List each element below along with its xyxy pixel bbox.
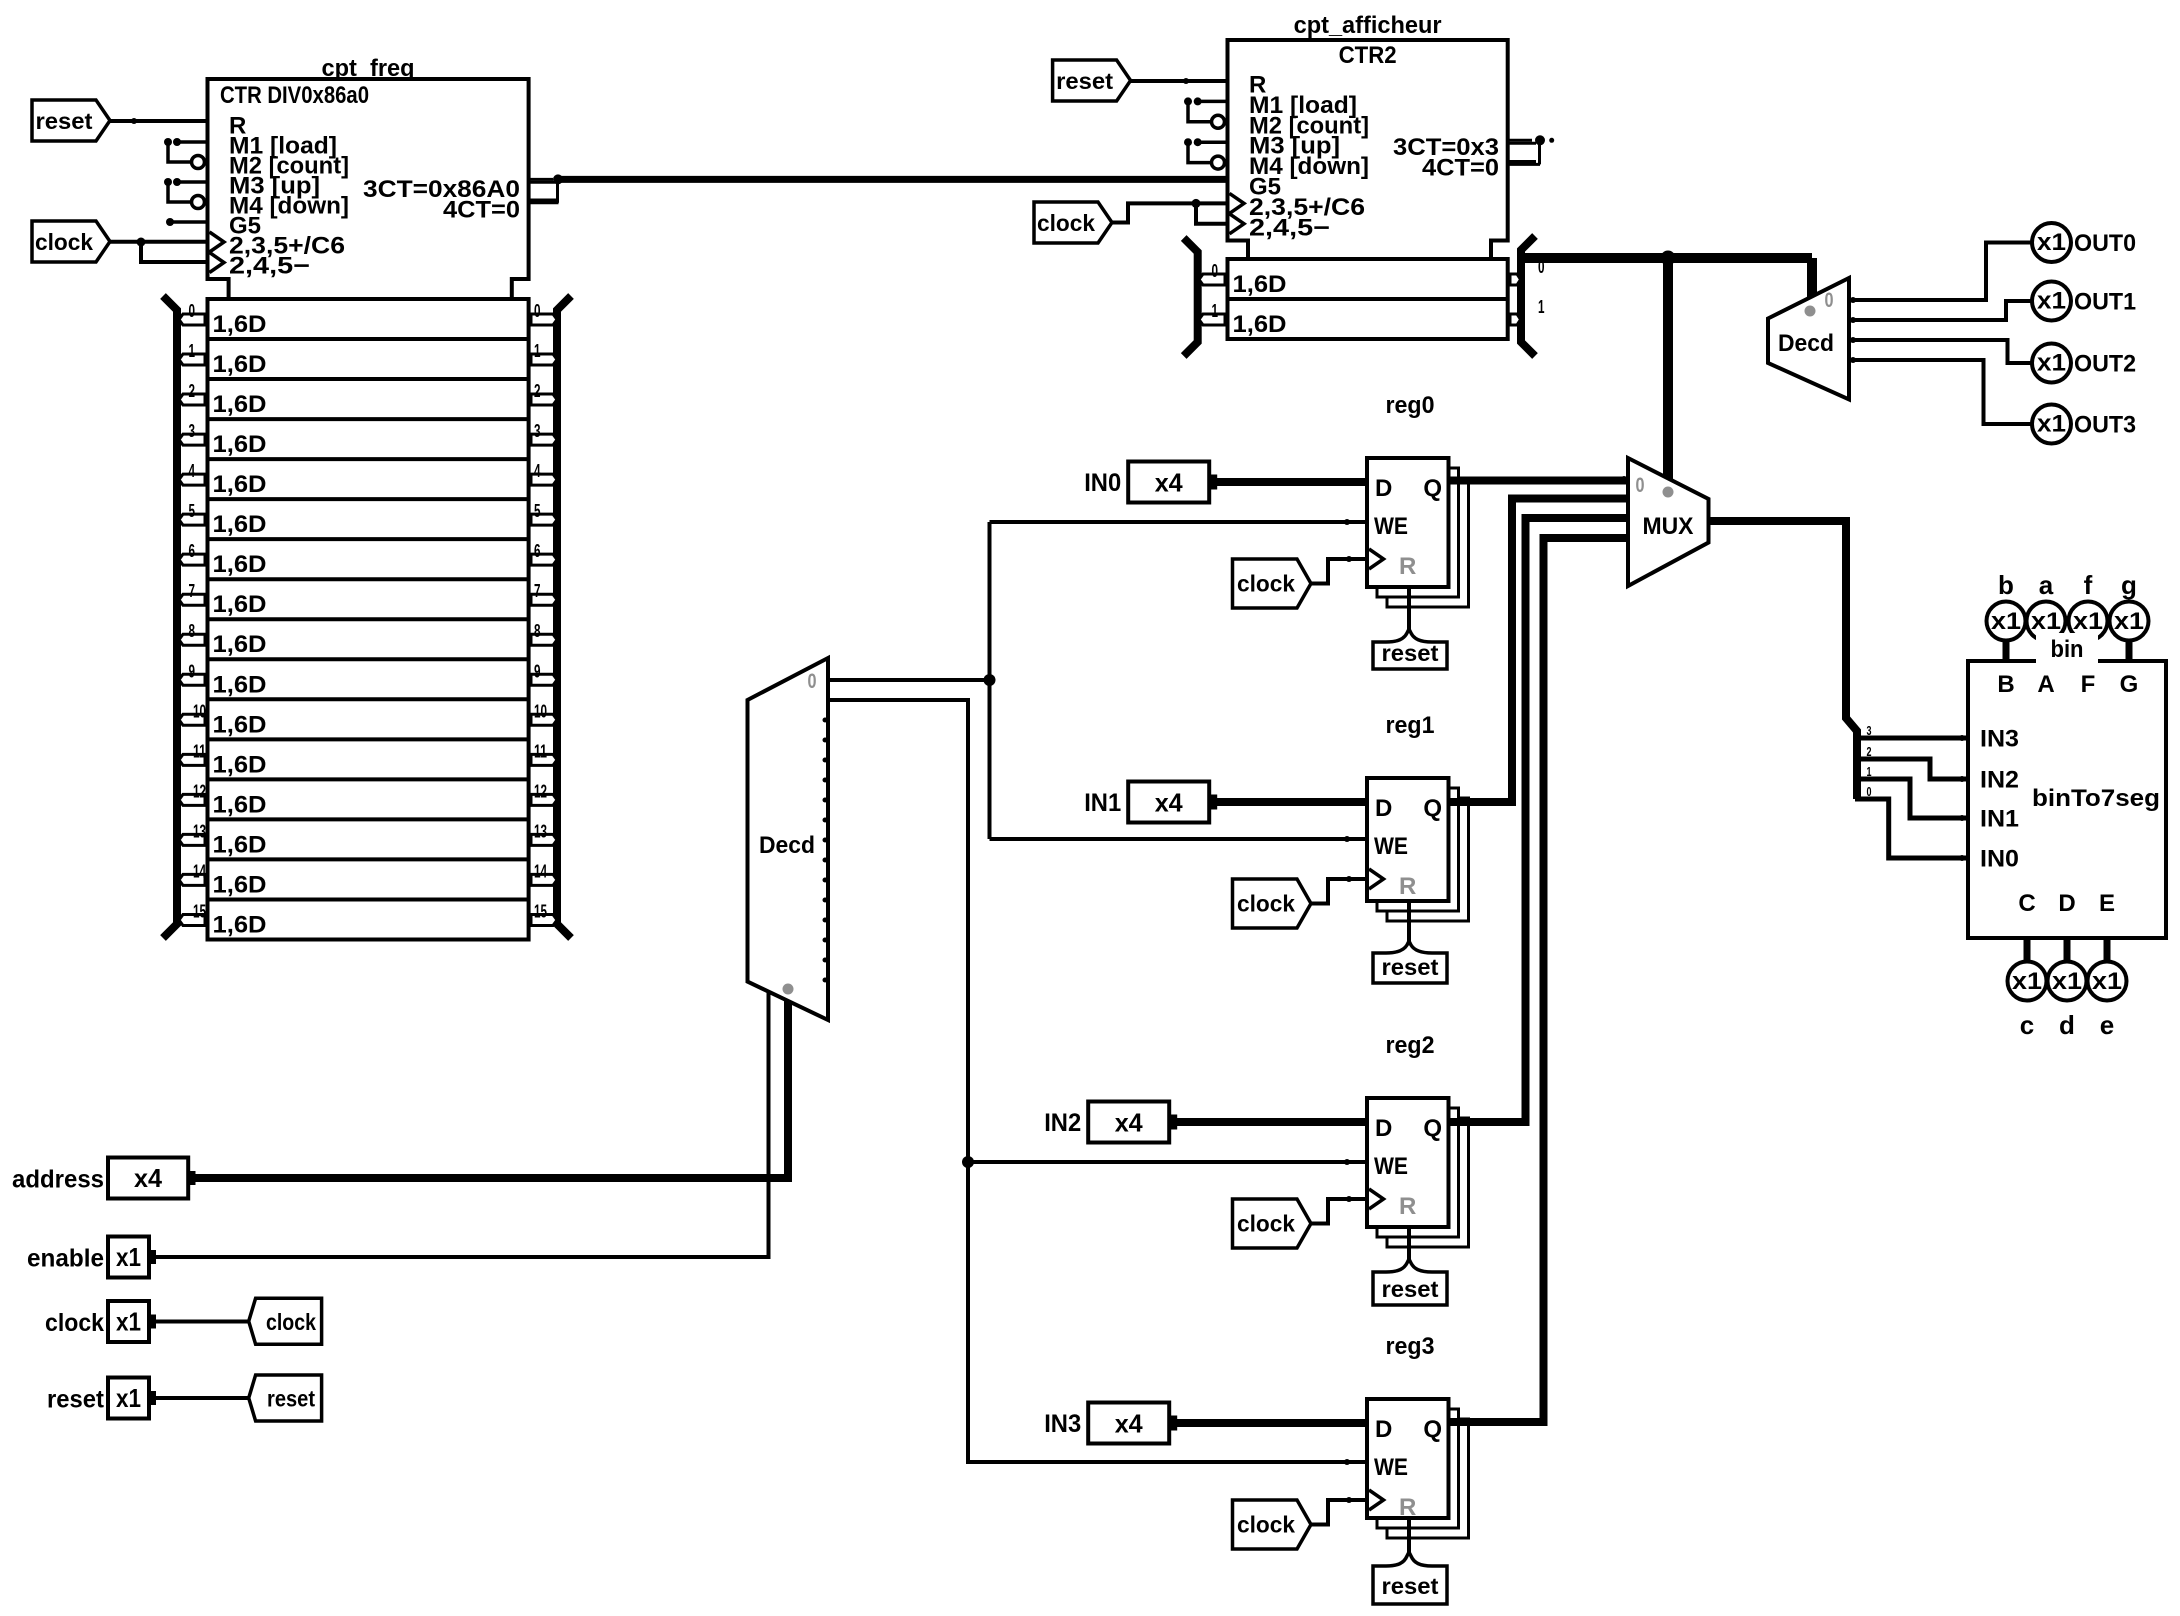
svg-text:B: B bbox=[1997, 671, 2014, 698]
svg-text:WE: WE bbox=[1374, 513, 1408, 540]
svg-text:Q: Q bbox=[1423, 1416, 1442, 1443]
svg-text:reg3: reg3 bbox=[1386, 1333, 1435, 1360]
register reg3 shadow flip-flops bbox=[1387, 1419, 1469, 1538]
bit stub left 8 (cpt_freq register) bbox=[179, 634, 205, 645]
reset tag sink with brace (reg3) bbox=[1373, 1552, 1447, 1604]
output stub 3CT (cpt_afficheur) bbox=[1508, 139, 1532, 142]
bit stub right 9 (cpt_freq register) bbox=[531, 674, 557, 685]
svg-text:8: 8 bbox=[189, 621, 196, 641]
wire MUX select vertical bbox=[1663, 258, 1673, 479]
input port enable x1 box bbox=[108, 1237, 149, 1278]
constant driver dot G5 (cpt_freq) bbox=[166, 218, 174, 226]
wire WE net for reg0/reg1 vertical bbox=[988, 522, 992, 839]
svg-text:x1: x1 bbox=[2031, 608, 2061, 635]
gray select dot of MUX bbox=[1663, 487, 1674, 498]
register reg1 shadow flip-flops bbox=[1387, 798, 1469, 921]
wire splitter bit1 to binTo7seg IN1 bbox=[1857, 779, 1968, 818]
svg-text:x1: x1 bbox=[116, 1383, 141, 1413]
wire WE input of reg0 bbox=[990, 520, 1368, 524]
bit stub left 4 (cpt_freq register) bbox=[179, 474, 205, 485]
svg-text:IN1: IN1 bbox=[1980, 806, 2019, 833]
row separator 4 (cpt_freq register) bbox=[208, 457, 529, 461]
svg-text:1,6D: 1,6D bbox=[213, 551, 267, 578]
wire Decd out0 to OUT0 bbox=[1849, 243, 2033, 301]
svg-text:1,6D: 1,6D bbox=[213, 511, 267, 538]
wire Decd out3 to OUT3 bbox=[1849, 360, 2033, 424]
input port box IN1 x4 bbox=[1128, 782, 1209, 823]
wire net cpt_afficheur count bus to MUX select and Decd select bbox=[1521, 253, 1812, 263]
svg-text:x1: x1 bbox=[116, 1242, 141, 1272]
svg-text:address: address bbox=[12, 1166, 104, 1194]
wire Decd select vertical bbox=[1807, 258, 1817, 298]
converter block binTo7seg (bin) bbox=[1968, 661, 2166, 938]
row separator 13 (cpt_freq register) bbox=[208, 817, 529, 821]
svg-text:IN2: IN2 bbox=[1980, 767, 2019, 794]
svg-text:D: D bbox=[2058, 890, 2075, 917]
inverter bubble M2 (cpt_freq) bbox=[192, 156, 205, 169]
bit stub right 5 (cpt_freq register) bbox=[531, 514, 557, 525]
svg-text:reset: reset bbox=[1382, 1573, 1439, 1599]
arrow dot on reset wire (cpt_freq) bbox=[131, 118, 137, 124]
row separator 15 (cpt_freq register) bbox=[208, 897, 529, 901]
svg-text:x4: x4 bbox=[134, 1163, 163, 1193]
svg-text:2: 2 bbox=[1867, 744, 1872, 759]
svg-text:a: a bbox=[2039, 570, 2054, 600]
svg-text:6: 6 bbox=[534, 541, 541, 561]
svg-text:g: g bbox=[2121, 570, 2137, 600]
svg-text:3: 3 bbox=[189, 421, 196, 441]
output connector x1 OUT1 bbox=[2032, 282, 2071, 321]
svg-text:reset: reset bbox=[1382, 954, 1439, 980]
wire Q output of reg2 to MUX in2 bbox=[1449, 518, 1629, 1122]
bit stub right 6 (cpt_freq register) bbox=[531, 554, 557, 565]
wire D input of reg0 bbox=[1216, 478, 1367, 486]
svg-text:D: D bbox=[1375, 1115, 1392, 1142]
input port box IN0 x4 bbox=[1128, 462, 1209, 503]
svg-text:reset: reset bbox=[1382, 640, 1439, 666]
clock edge triangle (reg2) bbox=[1369, 1189, 1384, 1209]
clock tag input (reg0) bbox=[1233, 559, 1312, 608]
port nub IN0 bbox=[1210, 475, 1217, 490]
svg-text:cpt_freq: cpt_freq bbox=[322, 55, 415, 82]
svg-text:4: 4 bbox=[534, 461, 541, 481]
svg-text:1,6D: 1,6D bbox=[213, 631, 267, 658]
row separator 1 (cpt_freq register) bbox=[208, 337, 529, 341]
svg-text:14: 14 bbox=[534, 861, 547, 881]
svg-text:clock: clock bbox=[1237, 1512, 1295, 1538]
row separator 12 (cpt_freq register) bbox=[208, 777, 529, 781]
splitter tick dots bbox=[1886, 736, 1891, 741]
bit stub right 15 (cpt_freq register) bbox=[531, 914, 557, 925]
svg-text:13: 13 bbox=[534, 821, 547, 841]
register reg2 shadow flip-flops bbox=[1387, 1118, 1469, 1247]
wire big Decd pin1 net to reg2/reg3 WE bbox=[828, 700, 1367, 1462]
svg-text:2,4,5−: 2,4,5− bbox=[229, 253, 310, 280]
svg-text:e: e bbox=[2100, 1010, 2114, 1040]
output connector x1 OUT2 bbox=[2032, 344, 2071, 383]
svg-text:Q: Q bbox=[1423, 475, 1442, 502]
svg-text:x1: x1 bbox=[2037, 350, 2066, 377]
counter block cpt_freq CTR DIV0x86a0 bbox=[208, 79, 529, 299]
pin dots on binTo7seg inputs bbox=[1959, 735, 1965, 741]
wire address net to big Decd select bbox=[195, 1000, 788, 1178]
row separator 6 (cpt_freq register) bbox=[208, 537, 529, 541]
svg-text:1,6D: 1,6D bbox=[213, 711, 267, 738]
svg-text:Decd: Decd bbox=[759, 832, 815, 859]
svg-text:E: E bbox=[2099, 890, 2115, 917]
port nub enable bbox=[149, 1250, 156, 1264]
wire enable net to big Decd select bbox=[155, 990, 769, 1257]
svg-text:11: 11 bbox=[193, 741, 206, 761]
svg-text:f: f bbox=[2084, 570, 2093, 600]
svg-text:x4: x4 bbox=[1155, 468, 1184, 498]
wire clock to reg0 bbox=[1311, 559, 1367, 584]
clock edge triangle pin C6 (cpt_afficheur) bbox=[1230, 193, 1245, 213]
svg-text:x1: x1 bbox=[2092, 968, 2122, 995]
svg-text:10: 10 bbox=[193, 701, 206, 721]
register array block of cpt_afficheur (2 x 1,6D) bbox=[1228, 259, 1508, 339]
wire D input of reg3 bbox=[1176, 1419, 1367, 1427]
wire bottom pin stub at x=2067 (binTo7seg) bbox=[2064, 938, 2071, 964]
svg-text:reset: reset bbox=[1382, 1276, 1439, 1302]
bit stub left 9 (cpt_freq register) bbox=[179, 674, 205, 685]
constant driver dots M1/M2 (cpt_afficheur) bbox=[1184, 97, 1192, 105]
svg-text:IN0: IN0 bbox=[1980, 846, 2019, 873]
svg-text:x1: x1 bbox=[1991, 608, 2021, 635]
svg-text:c: c bbox=[2020, 1010, 2034, 1040]
svg-text:13: 13 bbox=[193, 821, 206, 841]
right bus of cpt_freq register with rips bbox=[557, 296, 571, 938]
svg-text:8: 8 bbox=[534, 621, 541, 641]
port nub reset bbox=[149, 1391, 156, 1405]
svg-text:x1: x1 bbox=[2052, 968, 2082, 995]
svg-text:b: b bbox=[1998, 570, 2014, 600]
svg-text:clock: clock bbox=[266, 1309, 316, 1335]
bit stub right 0 (cpt_afficheur register) bbox=[1510, 274, 1521, 285]
svg-text:0: 0 bbox=[1636, 474, 1645, 497]
wire Decd out1 to OUT1 bbox=[1849, 301, 2033, 320]
left bus of cpt_afficheur register with rips bbox=[1184, 238, 1198, 356]
pin dots on MUX inputs bbox=[1621, 476, 1627, 482]
bit stub right 1 (cpt_freq register) bbox=[531, 354, 557, 365]
bit stub left 11 (cpt_freq register) bbox=[179, 754, 205, 765]
output connector x1 for segment a bbox=[2027, 602, 2066, 641]
svg-text:clock: clock bbox=[1237, 1211, 1295, 1237]
gray select dot of right Decd bbox=[1805, 306, 1816, 317]
arrow dots WE pins bbox=[1344, 519, 1350, 525]
svg-text:clock: clock bbox=[1237, 571, 1295, 597]
register reg2 flip-flop block bbox=[1367, 1098, 1449, 1227]
svg-text:WE: WE bbox=[1374, 833, 1408, 860]
clock edge triangle pin 2,4,5- (cpt_afficheur) bbox=[1230, 214, 1245, 234]
svg-text:IN1: IN1 bbox=[1084, 789, 1121, 817]
wire bottom pin stub at x=2107 (binTo7seg) bbox=[2104, 938, 2111, 964]
svg-text:0: 0 bbox=[1825, 289, 1834, 312]
clock tag input (reg2) bbox=[1233, 1199, 1312, 1248]
wire R reset of reg0 bbox=[1407, 587, 1411, 631]
register reg3 flip-flop block bbox=[1367, 1399, 1449, 1518]
svg-text:2: 2 bbox=[534, 381, 541, 401]
arrow dot on G5 wire bbox=[1183, 176, 1189, 182]
wire R reset of reg1 bbox=[1407, 901, 1411, 943]
constant driver dots M3/M4 (cpt_afficheur) bbox=[1184, 138, 1192, 146]
clock tag input (cpt_freq) bbox=[32, 221, 110, 262]
svg-text:10: 10 bbox=[534, 701, 547, 721]
bit stub left 10 (cpt_freq register) bbox=[179, 714, 205, 725]
wire WE input of reg2 bbox=[968, 1160, 1367, 1164]
svg-text:4CT=0: 4CT=0 bbox=[1422, 155, 1499, 182]
clock tag input (cpt_afficheur) bbox=[1034, 202, 1112, 243]
svg-text:1,6D: 1,6D bbox=[1233, 271, 1287, 298]
input port clock x1 box bbox=[108, 1301, 149, 1342]
svg-text:R: R bbox=[1399, 873, 1416, 900]
svg-text:F: F bbox=[2081, 671, 2096, 698]
wire big Decd pin0 to junction bbox=[828, 678, 990, 682]
svg-text:CTR DIV0x86a0: CTR DIV0x86a0 bbox=[220, 82, 369, 109]
svg-text:x1: x1 bbox=[2037, 411, 2066, 438]
wire MUX output bus to splitter bbox=[1708, 521, 1857, 799]
wire Q output of reg0 to MUX in0 bbox=[1449, 477, 1629, 485]
svg-text:OUT2: OUT2 bbox=[2074, 351, 2136, 378]
svg-text:1,6D: 1,6D bbox=[213, 591, 267, 618]
svg-text:1: 1 bbox=[534, 341, 541, 361]
svg-text:9: 9 bbox=[189, 661, 196, 681]
bit stub left 0 (cpt_freq register) bbox=[179, 314, 205, 325]
svg-text:Decd: Decd bbox=[1778, 330, 1834, 357]
wire splitter bit3 to binTo7seg IN3 bbox=[1857, 736, 1968, 741]
svg-text:2: 2 bbox=[189, 381, 196, 401]
gray select dot of big Decd bbox=[783, 984, 794, 995]
input port box IN2 x4 bbox=[1088, 1102, 1169, 1143]
port nub address bbox=[189, 1171, 196, 1185]
svg-text:1: 1 bbox=[189, 341, 196, 361]
register reg1 flip-flop block bbox=[1367, 778, 1449, 901]
svg-text:1,6D: 1,6D bbox=[213, 471, 267, 498]
wire bottom pin stub at x=2027 (binTo7seg) bbox=[2024, 938, 2031, 964]
input port reset x1 box bbox=[108, 1378, 149, 1419]
junction dot on clock wire (cpt_freq) bbox=[137, 238, 146, 247]
bit stub right 2 (cpt_freq register) bbox=[531, 394, 557, 405]
svg-text:1,6D: 1,6D bbox=[213, 831, 267, 858]
svg-text:IN3: IN3 bbox=[1980, 726, 2019, 753]
row separator 10 (cpt_freq register) bbox=[208, 697, 529, 701]
svg-text:WE: WE bbox=[1374, 1454, 1408, 1481]
svg-text:IN2: IN2 bbox=[1044, 1109, 1081, 1137]
clock tag sink (bottom) bbox=[249, 1298, 322, 1344]
output connector x1 for segment e bbox=[2088, 962, 2127, 1001]
svg-text:0: 0 bbox=[534, 301, 541, 321]
svg-text:7: 7 bbox=[189, 581, 196, 601]
title bin (binTo7seg instance) with white backing bbox=[2036, 633, 2098, 663]
svg-text:1,6D: 1,6D bbox=[213, 431, 267, 458]
svg-text:D: D bbox=[1375, 475, 1392, 502]
svg-text:A: A bbox=[2037, 671, 2054, 698]
svg-text:bin: bin bbox=[2051, 636, 2084, 663]
svg-text:2,4,5−: 2,4,5− bbox=[1249, 214, 1330, 241]
inverter bubble M4 (cpt_freq) bbox=[192, 196, 205, 209]
bit stub right 11 (cpt_freq register) bbox=[531, 754, 557, 765]
wire top pin stub at x=2129 (binTo7seg) bbox=[2126, 638, 2133, 661]
svg-text:15: 15 bbox=[193, 901, 206, 921]
svg-text:1,6D: 1,6D bbox=[213, 391, 267, 418]
svg-text:x1: x1 bbox=[2037, 229, 2066, 256]
row separator 7 (cpt_freq register) bbox=[208, 577, 529, 581]
clock tag input (reg3) bbox=[1233, 1500, 1312, 1549]
input port address x4 box bbox=[108, 1158, 188, 1199]
svg-text:Q: Q bbox=[1423, 795, 1442, 822]
output connector x1 for segment b bbox=[1987, 602, 2026, 641]
svg-text:R: R bbox=[1399, 1494, 1416, 1521]
svg-text:5: 5 bbox=[189, 501, 196, 521]
svg-text:cpt_afficheur: cpt_afficheur bbox=[1294, 12, 1442, 39]
reset tag sink with brace (reg2) bbox=[1373, 1259, 1447, 1305]
port nub IN3 bbox=[1170, 1416, 1177, 1431]
reset tag sink with brace (reg0) bbox=[1373, 629, 1447, 669]
svg-text:binTo7seg: binTo7seg bbox=[2032, 785, 2160, 812]
svg-text:x1: x1 bbox=[116, 1307, 141, 1337]
svg-text:clock: clock bbox=[45, 1309, 104, 1337]
clock edge triangle (reg1) bbox=[1369, 869, 1384, 889]
svg-text:1,6D: 1,6D bbox=[213, 351, 267, 378]
clock edge triangle pin C6 (cpt_freq) bbox=[210, 232, 225, 252]
bit stub right 10 (cpt_freq register) bbox=[531, 714, 557, 725]
port nub IN2 bbox=[1170, 1115, 1177, 1130]
wire reset to cpt_afficheur R bbox=[1131, 79, 1228, 83]
svg-text:12: 12 bbox=[193, 781, 206, 801]
constant driver dots for M3/M4 (cpt_freq) bbox=[164, 178, 172, 186]
junction dot cpt_afficheur 3CT output bbox=[1535, 135, 1545, 145]
svg-text:enable: enable bbox=[27, 1245, 104, 1273]
output connector x1 OUT3 bbox=[2032, 405, 2071, 444]
wire top pin stub at x=2006 (binTo7seg) bbox=[2003, 638, 2010, 661]
svg-text:R: R bbox=[1399, 553, 1416, 580]
output connector x1 for segment c bbox=[2008, 962, 2047, 1001]
wire Q output of reg1 to MUX in1 bbox=[1449, 499, 1629, 803]
svg-text:D: D bbox=[1375, 1416, 1392, 1443]
row separator 3 (cpt_freq register) bbox=[208, 417, 529, 421]
register reg0 shadow flip-flops bbox=[1387, 478, 1469, 607]
svg-text:1,6D: 1,6D bbox=[213, 671, 267, 698]
clock edge triangle pin 2,4,5- (cpt_freq) bbox=[210, 253, 225, 273]
port nub IN1 bbox=[1210, 795, 1217, 810]
output stub 4CT (cpt_freq) bbox=[529, 199, 556, 202]
bit stub left 6 (cpt_freq register) bbox=[179, 554, 205, 565]
wire clock to reg1 bbox=[1311, 879, 1367, 904]
svg-text:x4: x4 bbox=[1115, 1409, 1144, 1439]
arrow dot on reset wire (cpt_afficheur) bbox=[1183, 78, 1189, 84]
wire clock to reg3 bbox=[1311, 1500, 1367, 1525]
svg-text:15: 15 bbox=[534, 901, 547, 921]
bit stub right 4 (cpt_freq register) bbox=[531, 474, 557, 485]
svg-text:x1: x1 bbox=[2114, 608, 2144, 635]
bit stub right 13 (cpt_freq register) bbox=[531, 834, 557, 845]
row separator 14 (cpt_freq register) bbox=[208, 857, 529, 861]
bit stub left 13 (cpt_freq register) bbox=[179, 834, 205, 845]
wire WE input of reg1 bbox=[990, 837, 1368, 841]
wire reset port to reset tag bbox=[153, 1396, 249, 1400]
wire R reset of reg3 bbox=[1407, 1518, 1411, 1554]
svg-text:11: 11 bbox=[534, 741, 547, 761]
svg-text:R: R bbox=[1399, 1193, 1416, 1220]
svg-text:reg2: reg2 bbox=[1386, 1032, 1435, 1059]
wire D input of reg2 bbox=[1176, 1118, 1367, 1126]
right bus of cpt_afficheur register with rips bbox=[1521, 236, 1535, 356]
svg-text:1,6D: 1,6D bbox=[1233, 311, 1287, 338]
svg-text:12: 12 bbox=[534, 781, 547, 801]
wire splitter bit2 to binTo7seg IN2 bbox=[1857, 759, 1968, 779]
svg-text:IN3: IN3 bbox=[1044, 1410, 1081, 1438]
svg-text:6: 6 bbox=[189, 541, 196, 561]
wire Decd out2 to OUT2 bbox=[1849, 340, 2033, 363]
inverter bubble M4 (cpt_afficheur) bbox=[1212, 156, 1225, 169]
bit stub left 5 (cpt_freq register) bbox=[179, 514, 205, 525]
output connector x1 for segment f bbox=[2069, 602, 2108, 641]
output stub 4CT (cpt_afficheur) bbox=[1508, 160, 1536, 163]
svg-text:1,6D: 1,6D bbox=[213, 311, 267, 338]
bit stub right 14 (cpt_freq register) bbox=[531, 874, 557, 885]
row separator 11 (cpt_freq register) bbox=[208, 737, 529, 741]
svg-text:IN0: IN0 bbox=[1084, 469, 1121, 497]
svg-text:Q: Q bbox=[1423, 1115, 1442, 1142]
junction dot select net to MUX and Decd bbox=[1661, 251, 1676, 266]
svg-text:3: 3 bbox=[1867, 723, 1872, 738]
svg-text:reg1: reg1 bbox=[1386, 712, 1435, 739]
svg-text:0: 0 bbox=[189, 301, 196, 321]
wire top pin stub at x=2046 (binTo7seg) bbox=[2043, 638, 2050, 661]
decoder Decd (address decoder) bbox=[748, 658, 829, 1020]
wire splitter bit0 to binTo7seg IN0 bbox=[1855, 799, 1968, 858]
reset tag sink with brace (reg1) bbox=[1373, 941, 1447, 983]
svg-text:1,6D: 1,6D bbox=[213, 911, 267, 938]
svg-text:4CT=0: 4CT=0 bbox=[443, 197, 520, 224]
decoder Decd (output decoder) bbox=[1768, 278, 1849, 399]
svg-text:9: 9 bbox=[534, 661, 541, 681]
wire Q output of reg3 to MUX in3 bbox=[1449, 538, 1629, 1422]
wire clock to cpt_freq clock pins bbox=[110, 240, 208, 244]
row separator (cpt_afficheur register) bbox=[1228, 297, 1508, 301]
bit stub left 1 (cpt_afficheur register) bbox=[1199, 314, 1225, 325]
reset tag input (cpt_freq) bbox=[32, 100, 110, 141]
svg-text:OUT0: OUT0 bbox=[2074, 230, 2136, 257]
bit stub left 1 (cpt_freq register) bbox=[179, 354, 205, 365]
svg-text:OUT1: OUT1 bbox=[2074, 289, 2136, 316]
wire top pin stub at x=2088 (binTo7seg) bbox=[2085, 638, 2092, 661]
bit stub left 14 (cpt_freq register) bbox=[179, 874, 205, 885]
output connector x1 OUT0 bbox=[2032, 223, 2071, 262]
row separator 8 (cpt_freq register) bbox=[208, 617, 529, 621]
clock edge triangle (reg3) bbox=[1369, 1490, 1384, 1510]
svg-text:reset: reset bbox=[267, 1386, 315, 1412]
svg-text:d: d bbox=[2059, 1010, 2075, 1040]
counter block cpt_afficheur CTR2 bbox=[1228, 40, 1508, 259]
svg-text:WE: WE bbox=[1374, 1153, 1408, 1180]
svg-text:G: G bbox=[2120, 671, 2139, 698]
svg-text:x1: x1 bbox=[2012, 968, 2042, 995]
junction dot WE net reg0/reg1 bbox=[984, 674, 996, 686]
svg-text:reset: reset bbox=[1056, 68, 1113, 94]
svg-text:x1: x1 bbox=[2037, 288, 2066, 315]
svg-text:CTR2: CTR2 bbox=[1339, 42, 1397, 69]
svg-text:reset: reset bbox=[36, 108, 93, 134]
svg-text:0: 0 bbox=[808, 670, 817, 693]
svg-text:C: C bbox=[2018, 890, 2035, 917]
svg-text:D: D bbox=[1375, 795, 1392, 822]
wire D input of reg1 bbox=[1216, 798, 1367, 806]
svg-text:1,6D: 1,6D bbox=[213, 791, 267, 818]
svg-text:3: 3 bbox=[534, 421, 541, 441]
svg-text:OUT3: OUT3 bbox=[2074, 412, 2136, 439]
output connector x1 for segment g bbox=[2110, 602, 2149, 641]
